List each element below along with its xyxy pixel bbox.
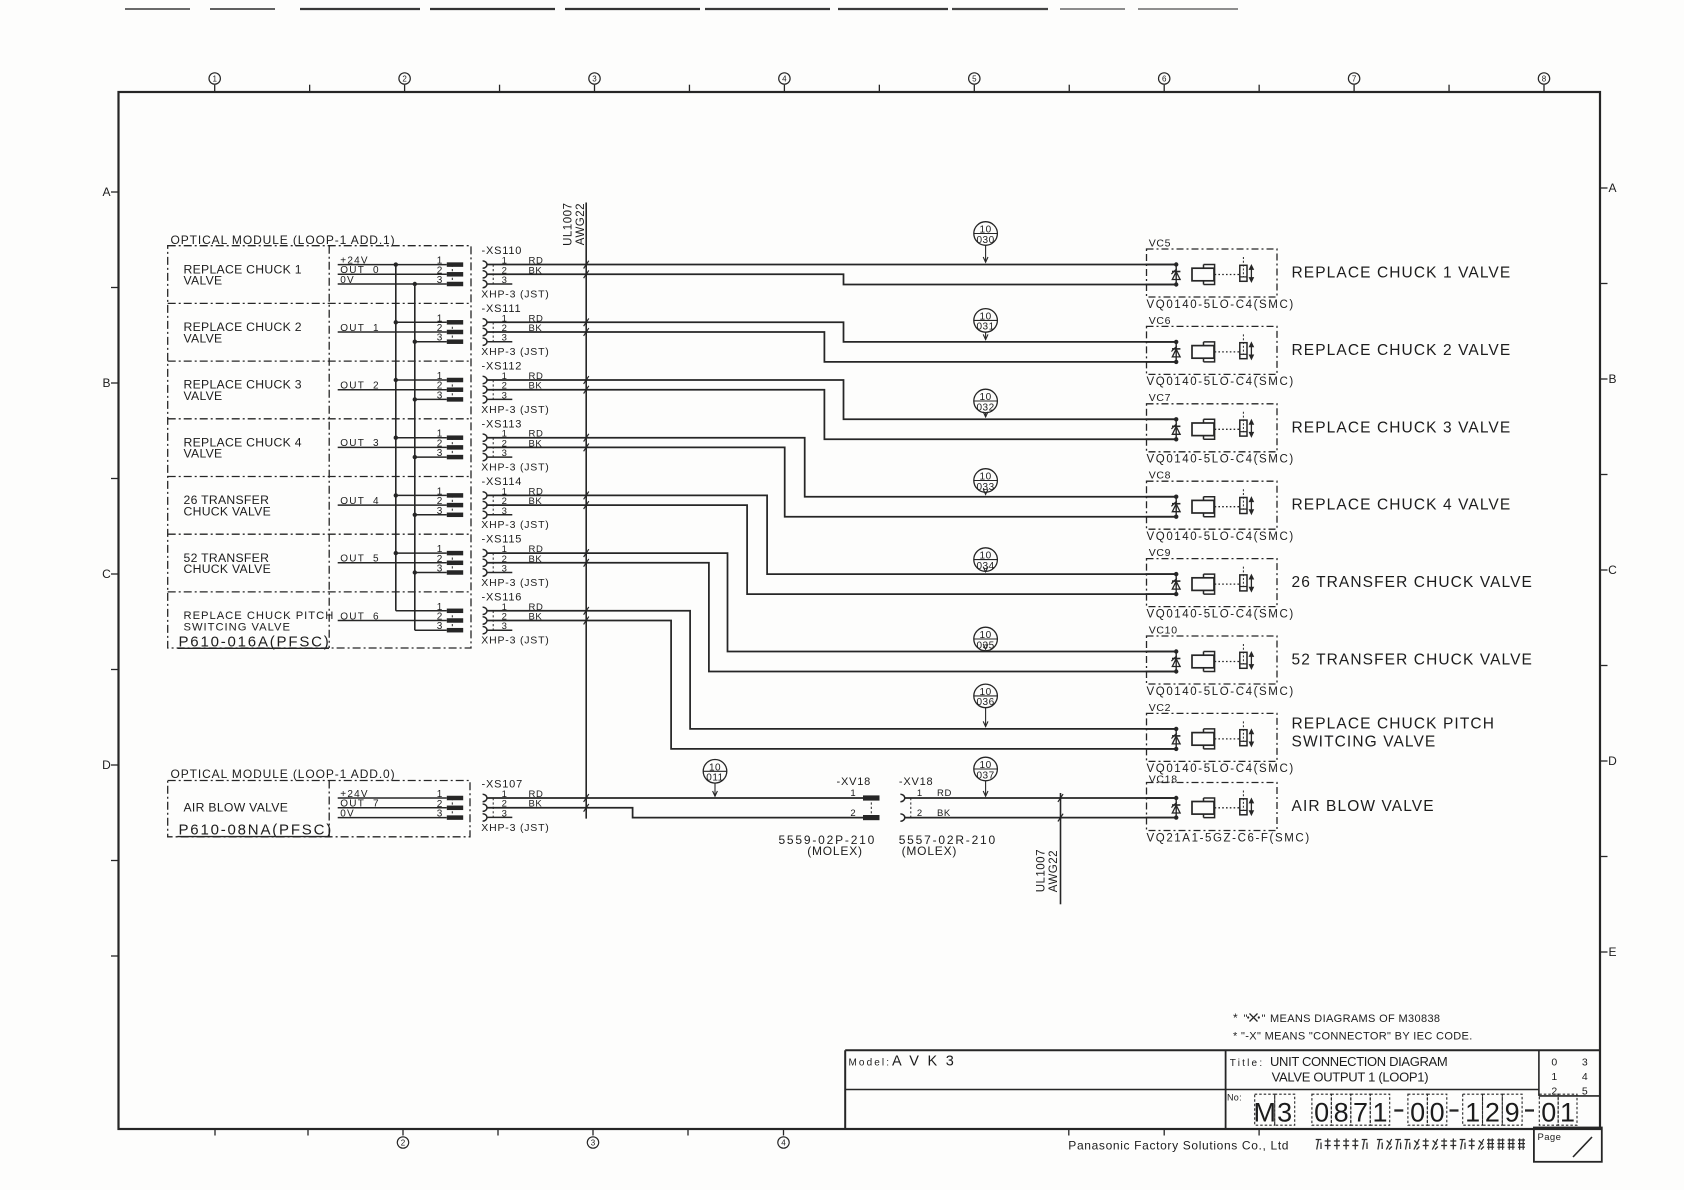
scan artifact line at top edge [125,8,1238,10]
svg-text:VQ0140-5LO-C4(SMC): VQ0140-5LO-C4(SMC) [1147,454,1295,466]
svg-text:3: 3 [1582,1056,1588,1068]
reference balloon 10/031 [974,309,998,340]
wire RD: XS112 pin1 to VC7 [487,376,1176,419]
svg-text:Page: Page [1538,1132,1562,1143]
grid row marker C (left) [102,567,118,581]
module part number P610-016A(PFSC) [178,633,331,650]
top ruler mid tick 3 [688,85,690,92]
svg-text:AIR BLOW VALVE: AIR BLOW VALVE [1292,798,1435,815]
svg-text:SWITCING VALVE: SWITCING VALVE [184,622,291,634]
left ruler mid tick C [111,669,119,671]
svg-text:VALVE: VALVE [184,331,223,345]
svg-text:VQ0140-5LO-C4(SMC): VQ0140-5LO-C4(SMC) [1147,686,1295,698]
svg-text:7: 7 [1353,1098,1368,1128]
svg-text:031: 031 [977,322,995,333]
svg-text:0: 0 [1551,1056,1557,1068]
grid column marker 4 (bottom) [778,1137,789,1148]
svg-text:": " [1244,1013,1248,1025]
wire RD: XS110 pin1 to VC5 [487,261,1176,269]
svg-text:4: 4 [782,74,787,83]
svg-text:5: 5 [972,74,977,83]
bottom ruler ticks [215,1129,1259,1136]
solenoid valve VC8 (VQ0140-5LO-C4(SMC)) [1146,470,1512,543]
svg-text:UL1007: UL1007 [1036,849,1048,892]
svg-text:011: 011 [706,773,723,784]
0V bus wire (vertical) [414,284,416,630]
grid column marker 6 (top) [1159,73,1170,92]
svg-text:CHUCK VALVE: CHUCK VALVE [184,562,272,576]
solenoid valve VC6 (VQ0140-5LO-C4(SMC)) [1146,315,1512,388]
svg-text:034: 034 [977,561,995,572]
svg-text:VALVE OUTPUT 1 (LOOP1): VALVE OUTPUT 1 (LOOP1) [1272,1069,1429,1084]
svg-text:52 TRANSFER CHUCK VALVE: 52 TRANSFER CHUCK VALVE [1292,652,1534,669]
footer: japanese company name (stylized) [1316,1139,1525,1150]
svg-text:AWG22: AWG22 [575,203,587,245]
svg-text:0: 0 [1541,1098,1556,1128]
grid row marker B (right) [1600,372,1617,386]
module channel label: REPLACE CHUCK 1 VALVE [184,262,302,287]
svg-text:REPLACE CHUCK 1 VALVE: REPLACE CHUCK 1 VALVE [1292,265,1512,282]
svg-text:* "-X" MEANS "CONNECTOR" BY IE: * "-X" MEANS "CONNECTOR" BY IEC CODE. [1233,1031,1473,1043]
module part number P610-08NA(PFSC) [178,822,334,839]
svg-text:SWITCING VALVE: SWITCING VALVE [1292,733,1437,750]
grid row marker E (left) [111,955,119,957]
svg-text:Model:: Model: [849,1058,892,1069]
svg-text:1: 1 [917,788,922,799]
svg-text:4: 4 [781,1138,786,1147]
top ruler mid tick 1 [309,85,311,92]
reference balloon 10/035 [974,627,998,651]
svg-text:REPLACE CHUCK 2 VALVE: REPLACE CHUCK 2 VALVE [1292,342,1512,359]
svg-text:VQ0140-5LO-C4(SMC): VQ0140-5LO-C4(SMC) [1147,608,1295,620]
solenoid valve VC7 (VQ0140-5LO-C4(SMC)) [1146,392,1512,465]
svg-text:": " [1262,1013,1266,1025]
module channel wiring and pins (to XS107) [338,789,463,820]
wire BK: XS114 pin2 to VC9 [487,501,1176,594]
left ruler mid tick B [111,478,119,480]
grid row marker C (right) [1600,563,1617,577]
svg-text:8: 8 [1542,74,1547,83]
optical module (LOOP-1 ADD.0) heading [171,767,396,781]
svg-text:3: 3 [437,448,443,459]
svg-text:3: 3 [437,275,443,286]
svg-text:XHP-3 (JST): XHP-3 (JST) [481,635,549,647]
optical module (LOOP-1 ADD.1) enclosure box [168,246,471,648]
module channel 3 wiring and pins (to XS113) [338,429,463,460]
svg-text:E: E [1608,945,1616,959]
svg-text:AWG22: AWG22 [1048,850,1060,892]
grid column marker 1 (top) [209,73,220,92]
module channel 2 wiring and pins (to XS112) [338,371,463,402]
connector XV18 plug 5559-02P-210 (MOLEX) [778,776,879,858]
svg-text:M: M [1253,1098,1276,1128]
title block: revision number column [1551,1056,1588,1097]
footer: company name [1068,1139,1289,1153]
svg-text:C: C [102,567,111,581]
wire RD: XS116 pin1 to VC2 [487,607,1176,729]
svg-text:Panasonic Factory Solutions Co: Panasonic Factory Solutions Co., Ltd [1068,1139,1289,1153]
svg-text:VC2: VC2 [1149,702,1172,714]
wire RD: XS113 pin1 to VC8 [487,434,1176,497]
svg-text:(MOLEX): (MOLEX) [902,844,958,858]
svg-text:1: 1 [1560,1098,1575,1128]
svg-text:XHP-3 (JST): XHP-3 (JST) [481,346,549,358]
svg-text:-XV18: -XV18 [837,776,872,788]
connector XS111 (XHP-3 JST) [481,303,549,358]
svg-text:030: 030 [977,235,995,246]
right ruler mid tick C [1600,665,1608,667]
svg-text:2: 2 [917,808,922,819]
svg-text:B: B [102,376,110,390]
top ruler mid tick 2 [499,85,501,92]
top ruler mid tick 5 [1068,85,1070,92]
svg-text:UNIT CONNECTION DIAGRAM: UNIT CONNECTION DIAGRAM [1270,1054,1447,1069]
right ruler mid tick D [1600,856,1608,858]
grid row marker D (right) [1600,754,1617,768]
svg-text:0: 0 [1410,1098,1425,1128]
svg-text:3: 3 [437,506,443,517]
svg-text:1: 1 [1551,1071,1557,1083]
svg-text:No:: No: [1227,1092,1242,1102]
title block: page box [1534,1128,1602,1162]
svg-text:REPLACE CHUCK PITCH: REPLACE CHUCK PITCH [184,610,335,622]
wire BK: XS112 pin2 to VC7 [487,386,1176,440]
svg-text:1: 1 [1372,1098,1387,1128]
reference balloon 10/030 [974,222,998,263]
top ruler mid tick 4 [878,85,880,92]
module channel 0 wiring and pins (to XS110) [338,255,463,286]
connector XS114 (XHP-3 JST) [481,476,549,531]
left ruler mid tick D [111,860,119,862]
svg-text:032: 032 [977,402,995,413]
reference balloon 10/034 [974,548,998,572]
module channel label: AIR BLOW VALVE [184,801,289,815]
solenoid valve VC10 (VQ0140-5LO-C4(SMC)) [1146,624,1534,697]
title block: model name AVK3 [849,1054,963,1070]
connector XS115 (XHP-3 JST) [481,534,549,589]
solenoid valve VC18 (VQ21A1-5GZ-C6-F SMC) [1146,773,1435,844]
reference balloon 10/037 [974,757,998,796]
svg-text:VC9: VC9 [1149,547,1172,559]
wire RD: XS111 pin1 to VC6 [487,318,1176,342]
svg-text:REPLACE CHUCK 3 VALVE: REPLACE CHUCK 3 VALVE [1292,419,1512,436]
cable UL1007 AWG22 (right vertical) [1036,793,1061,904]
svg-text:2: 2 [401,1138,406,1147]
svg-text:26 TRANSFER CHUCK VALVE: 26 TRANSFER CHUCK VALVE [1292,574,1534,591]
svg-text:REPLACE CHUCK PITCH: REPLACE CHUCK PITCH [1292,715,1496,732]
title block: drawing number M3 0871-00-129-01 [1227,1092,1577,1127]
svg-text:D: D [102,758,111,772]
module channel 4 wiring and pins (to XS114) [338,486,463,517]
svg-text:2: 2 [1485,1098,1500,1128]
title block frame [845,1050,1600,1129]
wire BK: XS115 pin2 to VC10 [487,559,1176,672]
svg-text:VC5: VC5 [1149,237,1172,249]
svg-text:036: 036 [977,697,995,708]
svg-text:XHP-3 (JST): XHP-3 (JST) [481,462,549,474]
svg-text:VC6: VC6 [1149,315,1172,327]
svg-text:XHP-3 (JST): XHP-3 (JST) [481,822,549,834]
svg-text:VC10: VC10 [1149,624,1178,636]
wire BK: XS111 pin2 to VC6 [487,328,1176,362]
svg-text:037: 037 [977,770,995,781]
optical module (LOOP-1 ADD.0) enclosure box [168,781,470,837]
svg-text:1: 1 [212,74,217,83]
svg-text:0: 0 [1430,1098,1445,1128]
module channel 6 wiring and pins (to XS116) [338,602,463,633]
svg-text:AIR BLOW VALVE: AIR BLOW VALVE [184,801,289,815]
connector XV18 receptacle 5557-02R-210 (MOLEX) [899,776,997,858]
svg-text:UL1007: UL1007 [562,203,574,246]
grid column marker 2 (top) [399,73,410,92]
grid column marker 2 (bottom) [397,1137,408,1148]
wire BK: XS107 pin2 to XV18 pin2 [487,804,863,818]
grid column marker 8 (top) [1538,73,1549,92]
module channel label: 52 TRANSFER CHUCK VALVE [184,551,272,576]
solenoid valve VC5 (VQ0140-5LO-C4(SMC)) [1146,237,1512,310]
svg-text:XHP-3 (JST): XHP-3 (JST) [481,519,549,531]
reference balloon 10/032 [974,389,998,417]
svg-text:CHUCK VALVE: CHUCK VALVE [184,504,272,518]
grid row marker A (right) [1600,181,1617,195]
right ruler mid tick A [1600,283,1608,285]
grid column marker 3 (top) [589,73,600,92]
svg-text:B: B [1608,372,1616,386]
svg-text:*: * [1233,1011,1238,1025]
cable UL1007 AWG22 (left vertical) [562,203,587,819]
wire RD: XS107 pin1 to XV18 pin1 [487,794,863,802]
svg-text:2: 2 [402,74,407,83]
right ruler mid tick B [1600,474,1608,476]
svg-text:VQ21A1-5GZ-C6-F(SMC): VQ21A1-5GZ-C6-F(SMC) [1147,832,1311,844]
grid row marker E (right) [1600,945,1617,959]
svg-text:RD: RD [937,788,952,799]
svg-text:3: 3 [1277,1098,1292,1128]
svg-text:9: 9 [1505,1098,1520,1128]
note: connector code legend line 2 [1233,1031,1473,1043]
wire BK: XV18 pin2 to VC18 [905,814,1176,822]
svg-text:(MOLEX): (MOLEX) [807,844,863,858]
svg-text:VC18: VC18 [1149,773,1178,785]
wire BK: XS113 pin2 to VC8 [487,444,1176,517]
connector XS110 (XHP-3 JST) [481,245,549,300]
module channel 5 wiring and pins (to XS115) [338,544,463,575]
svg-text:3: 3 [437,564,443,575]
svg-text:1: 1 [850,788,855,799]
wire RD: XS114 pin1 to VC9 [487,492,1176,575]
svg-text:VALVE: VALVE [184,274,223,288]
reference balloon 10/033 [974,469,998,495]
grid row marker A (left) [102,185,118,199]
svg-text:VALVE: VALVE [184,389,223,403]
solenoid valve VC9 (VQ0140-5LO-C4(SMC)) [1146,547,1534,620]
svg-text:3: 3 [437,621,443,632]
grid column marker 5 (top) [969,73,980,92]
solenoid valve VC2 (VQ0140-5LO-C4(SMC)) [1146,702,1496,775]
svg-text:3: 3 [437,809,443,820]
svg-text:VC7: VC7 [1149,392,1172,404]
title block: drawing title [1230,1054,1448,1084]
connector XS116 (XHP-3 JST) [481,591,549,646]
+24V bus wire (vertical) [395,265,397,611]
top ruler mid tick 6 [1258,85,1260,92]
svg-text:OPTICAL MODULE (LOOP-1 ADD.0): OPTICAL MODULE (LOOP-1 ADD.0) [171,767,396,781]
optical module (LOOP-1 ADD.1) heading [171,233,396,247]
module channel 1 wiring and pins (to XS111) [338,313,463,344]
svg-text:-XV18: -XV18 [899,776,934,788]
wire RD: XV18 pin1 to VC18 [905,794,1176,802]
connector XS112 (XHP-3 JST) [481,361,549,416]
grid column marker 4 (top) [779,73,790,92]
svg-text:VQ0140-5LO-C4(SMC): VQ0140-5LO-C4(SMC) [1147,531,1295,543]
svg-text:A: A [102,185,110,199]
svg-text:Title:: Title: [1230,1058,1265,1069]
svg-text:2: 2 [850,808,855,819]
grid column marker 3 (bottom) [587,1137,598,1148]
svg-text:VQ0140-5LO-C4(SMC): VQ0140-5LO-C4(SMC) [1147,299,1295,311]
grid row marker D (left) [102,758,118,772]
module channel label: REPLACE CHUCK 3 VALVE [184,378,302,403]
svg-text:3: 3 [592,74,597,83]
connector XS113 (XHP-3 JST) [481,418,549,473]
connector XS107 (XHP-3 JST) [481,779,549,834]
svg-text:6: 6 [1162,74,1167,83]
svg-text:C: C [1608,563,1617,577]
svg-text:3: 3 [437,333,443,344]
wire RD: XS115 pin1 to VC10 [487,549,1176,651]
module channel label: REPLACE CHUCK 2 VALVE [184,320,302,345]
module channel label: REPLACE CHUCK PITCH SWITCING VALVE [184,610,335,634]
svg-text:3: 3 [591,1138,596,1147]
top ruler mid tick 7 [1448,85,1450,92]
svg-text:1: 1 [1465,1098,1480,1128]
grid column marker 7 (top) [1348,73,1359,92]
svg-text:BK: BK [937,808,951,819]
svg-text:D: D [1608,754,1617,768]
svg-text:VALVE: VALVE [184,447,223,461]
note: reference mark legend line 1 [1233,1011,1440,1025]
svg-text:7: 7 [1352,74,1357,83]
reference balloon 10/036 [974,684,998,726]
svg-text:XHP-3 (JST): XHP-3 (JST) [481,288,549,300]
wire BK: XS110 pin2 to VC5 [487,270,1176,284]
module channel label: REPLACE CHUCK 4 VALVE [184,435,302,460]
svg-text:4: 4 [1582,1071,1588,1083]
svg-text:AVK3: AVK3 [892,1054,962,1070]
svg-text:MEANS DIAGRAMS OF M30838: MEANS DIAGRAMS OF M30838 [1270,1013,1440,1025]
svg-text:VC8: VC8 [1149,470,1172,482]
svg-text:033: 033 [977,482,995,493]
left ruler mid tick A [111,287,119,289]
grid row marker B (left) [102,376,118,390]
module channel label: 26 TRANSFER CHUCK VALVE [184,493,272,518]
svg-text:REPLACE CHUCK 4 VALVE: REPLACE CHUCK 4 VALVE [1292,497,1512,514]
svg-text:0: 0 [1314,1098,1329,1128]
svg-text:2: 2 [1551,1086,1557,1098]
svg-text:8: 8 [1334,1098,1349,1128]
svg-text:5: 5 [1582,1086,1588,1098]
drawing border frame [119,92,1601,1129]
svg-text:XHP-3 (JST): XHP-3 (JST) [481,577,549,589]
svg-text:3: 3 [437,390,443,401]
svg-text:A: A [1608,181,1616,195]
svg-text:XHP-3 (JST): XHP-3 (JST) [481,404,549,416]
reference balloon 10/011 [703,760,727,797]
svg-text:VQ0140-5LO-C4(SMC): VQ0140-5LO-C4(SMC) [1147,376,1295,388]
svg-text:OPTICAL MODULE (LOOP-1 ADD.1): OPTICAL MODULE (LOOP-1 ADD.1) [171,233,396,247]
wire BK: XS116 pin2 to VC2 [487,617,1176,749]
